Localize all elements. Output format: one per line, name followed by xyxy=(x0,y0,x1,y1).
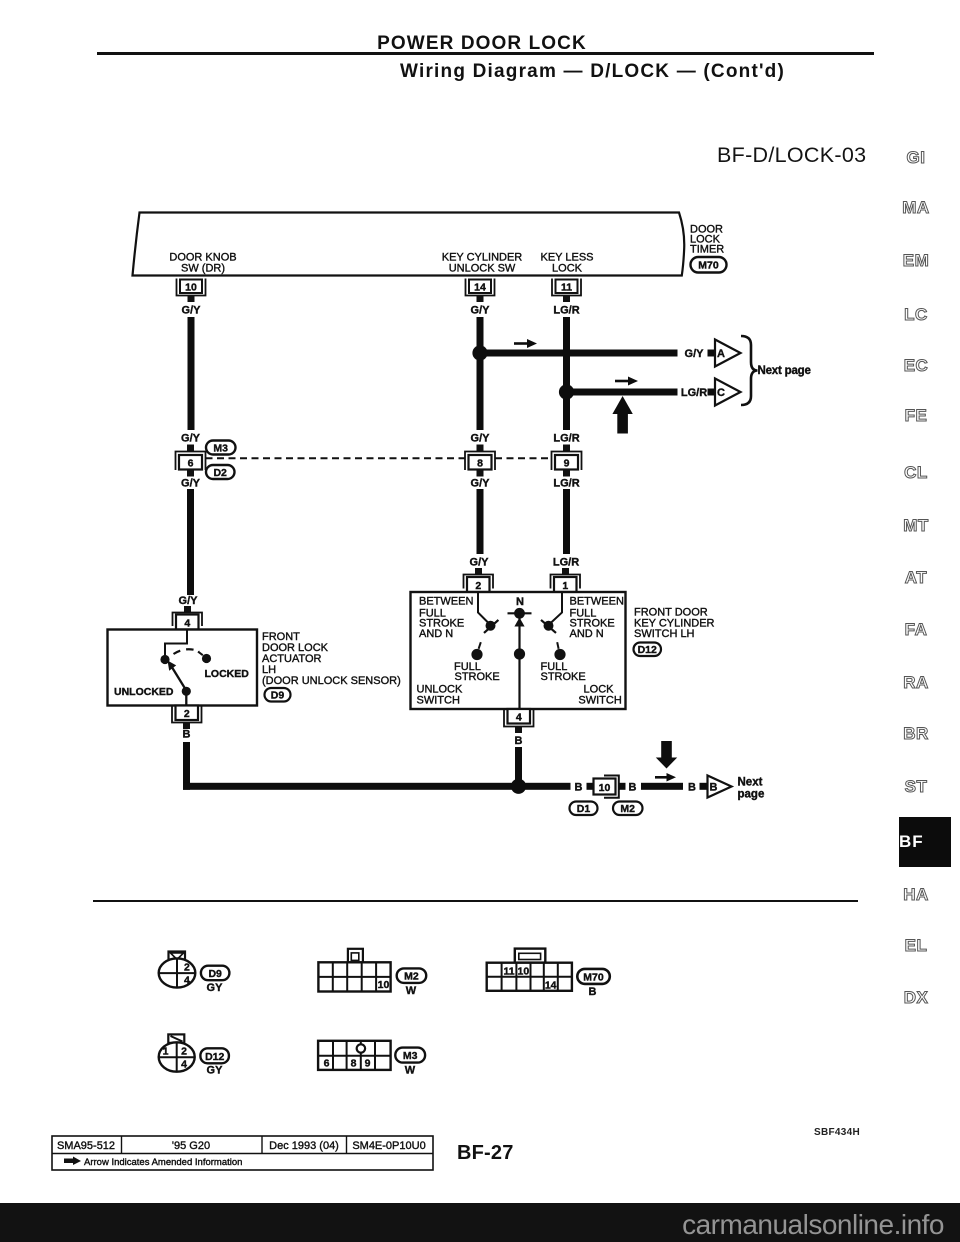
front door key cylinder switch box xyxy=(411,592,626,709)
svg-text:LG/R: LG/R xyxy=(553,478,579,490)
svg-text:G/Y: G/Y xyxy=(179,595,199,607)
svg-text:11: 11 xyxy=(503,965,514,977)
label UNLOCK SWITCH xyxy=(417,684,464,707)
svg-text:LOCK: LOCK xyxy=(552,263,583,275)
svg-text:G/Y: G/Y xyxy=(471,305,491,317)
wire right vertical upper xyxy=(563,317,570,430)
pinout M70 oval label xyxy=(577,969,610,984)
header rule xyxy=(97,52,874,55)
side tab MA xyxy=(896,198,936,218)
wire bottom horizontal B xyxy=(183,783,571,790)
svg-text:B: B xyxy=(629,782,637,794)
svg-text:STROKE: STROKE xyxy=(541,671,586,683)
svg-text:G/Y: G/Y xyxy=(181,478,201,490)
wire mid bottom vertical xyxy=(515,747,522,785)
svg-text:SM4E-0P10U0: SM4E-0P10U0 xyxy=(352,1140,425,1152)
side tab GI xyxy=(896,148,936,168)
side tab EM xyxy=(896,251,936,271)
svg-text:TIMER: TIMER xyxy=(690,244,724,256)
connector 9 xyxy=(552,445,582,477)
connector pin 11 (timer) xyxy=(552,279,581,303)
side tab DX xyxy=(896,988,936,1008)
stub before triangle B xyxy=(700,783,707,790)
connector pin 14 (timer) xyxy=(466,279,495,303)
side tab EC xyxy=(896,356,936,376)
key cyl right entry wire xyxy=(549,593,563,626)
key cyl left entry wire xyxy=(478,593,491,626)
header title xyxy=(0,33,960,55)
side tab BR xyxy=(896,724,936,744)
svg-text:G/Y: G/Y xyxy=(470,557,490,569)
svg-text:B: B xyxy=(710,782,718,794)
side tab AT xyxy=(896,568,936,588)
connector M70 oval xyxy=(691,257,727,273)
svg-text:M2: M2 xyxy=(404,971,419,983)
connector 4 (key cylinder bottom) xyxy=(504,709,534,733)
svg-text:M70: M70 xyxy=(583,971,604,983)
junction dot LG/R xyxy=(559,384,574,399)
svg-text:SMA95-512: SMA95-512 xyxy=(57,1140,115,1152)
svg-text:B: B xyxy=(183,729,191,741)
label FULL STROKE (right) xyxy=(541,661,586,683)
svg-text:8: 8 xyxy=(477,458,483,470)
actuator lever with arrow xyxy=(168,661,187,691)
junction dot B xyxy=(511,779,526,794)
svg-text:10: 10 xyxy=(185,282,197,294)
svg-text:10: 10 xyxy=(378,979,390,991)
connector 8 xyxy=(465,445,495,477)
footer page number xyxy=(457,1142,514,1165)
svg-text:(DOOR UNLOCK SENSOR): (DOOR UNLOCK SENSOR) xyxy=(262,675,401,687)
pinout D9 oval label xyxy=(201,966,230,981)
svg-text:M3: M3 xyxy=(403,1050,418,1062)
flow arrow on G/Y wire xyxy=(514,339,537,348)
svg-text:2: 2 xyxy=(181,1046,187,1058)
pinout connector M3 grid xyxy=(318,1041,391,1070)
wire LG/R horizontal to next page xyxy=(563,389,678,396)
svg-text:BETWEEN: BETWEEN xyxy=(570,596,624,608)
label KEY LESS LOCK xyxy=(541,252,594,275)
svg-text:LG/R: LG/R xyxy=(553,305,579,317)
actuator unlocked contact xyxy=(182,687,191,705)
actuator common contact xyxy=(160,655,169,664)
svg-text:Next: Next xyxy=(738,777,763,789)
svg-text:G/Y: G/Y xyxy=(685,348,705,360)
amended-info thick down arrow xyxy=(656,741,677,769)
svg-text:14: 14 xyxy=(474,282,486,294)
svg-text:11: 11 xyxy=(561,282,572,294)
brace next page xyxy=(741,336,758,405)
wire left vertical upper xyxy=(188,317,195,430)
svg-text:D12: D12 xyxy=(205,1051,224,1063)
svg-text:W: W xyxy=(405,1065,416,1077)
amended-info thick up arrow xyxy=(612,396,632,434)
svg-text:8: 8 xyxy=(351,1058,357,1070)
label DOOR KNOB SW (DR) xyxy=(169,252,236,275)
connector 2 (key cylinder) xyxy=(464,568,494,592)
up arrowhead on center wire xyxy=(514,618,524,627)
svg-text:B: B xyxy=(515,735,523,747)
side tab EL xyxy=(896,936,936,956)
svg-text:GY: GY xyxy=(207,982,224,994)
header subtitle xyxy=(400,61,820,83)
connector M3 oval xyxy=(206,441,236,455)
side tab HA xyxy=(896,885,936,905)
connector pin 10 (timer) xyxy=(177,279,206,303)
pinout connector M70 grid xyxy=(487,949,572,992)
node N xyxy=(508,608,532,619)
connector D2 oval xyxy=(206,465,235,479)
page connector triangle A xyxy=(715,340,741,367)
svg-text:10: 10 xyxy=(518,965,530,977)
side tab FE xyxy=(896,406,936,426)
svg-text:AND N: AND N xyxy=(570,628,604,640)
svg-text:4: 4 xyxy=(184,975,190,987)
side tab RA xyxy=(896,673,936,693)
label BETWEEN FULL STROKE AND N (left) xyxy=(419,596,473,640)
connector 10 (D1/M2 junction) xyxy=(594,776,619,798)
svg-text:LOCKED: LOCKED xyxy=(205,668,250,680)
harness dashed line left xyxy=(206,457,466,459)
label LOCK SWITCH xyxy=(578,684,621,707)
key cyl unlock contact xyxy=(484,620,498,633)
svg-text:14: 14 xyxy=(545,979,557,991)
door lock timer component box xyxy=(133,213,685,276)
label KEY CYLINDER UNLOCK SW xyxy=(442,252,523,275)
wire segment to page connector B xyxy=(641,783,683,790)
page connector triangle C xyxy=(715,379,741,406)
svg-text:W: W xyxy=(406,985,417,997)
svg-text:D2: D2 xyxy=(213,467,227,479)
connector D9 oval xyxy=(265,688,291,702)
pinout connector M2 grid xyxy=(318,949,390,992)
svg-text:'95 G20: '95 G20 xyxy=(172,1140,210,1152)
svg-text:1: 1 xyxy=(163,1046,169,1058)
wire G/Y horizontal to next page xyxy=(477,350,678,357)
full stroke contact left xyxy=(471,642,482,660)
svg-text:UNLOCKED: UNLOCKED xyxy=(114,686,174,698)
svg-text:G/Y: G/Y xyxy=(471,478,491,490)
bottom watermark bar xyxy=(0,1203,960,1242)
svg-text:4: 4 xyxy=(516,712,522,724)
page code BF-D/LOCK-03 xyxy=(717,143,866,168)
svg-text:D9: D9 xyxy=(208,968,222,980)
svg-text:6: 6 xyxy=(188,458,194,470)
svg-text:UNLOCK SW: UNLOCK SW xyxy=(449,263,516,275)
side tab BF black box xyxy=(899,817,951,867)
actuator throw dashed arc xyxy=(174,649,200,654)
actuator locked contact xyxy=(198,652,211,664)
stub square before C xyxy=(708,389,715,396)
stub before connector 10 xyxy=(587,783,594,790)
side tab MT xyxy=(896,516,936,536)
connector D12 oval xyxy=(634,643,662,657)
svg-text:STROKE: STROKE xyxy=(455,671,500,683)
small flow arrow (bottom) xyxy=(655,773,676,782)
label FULL STROKE (left) xyxy=(454,661,500,683)
svg-text:2: 2 xyxy=(184,708,190,720)
svg-text:2: 2 xyxy=(184,962,190,974)
svg-text:4: 4 xyxy=(184,618,190,630)
svg-text:page: page xyxy=(738,789,765,801)
svg-text:B: B xyxy=(589,986,597,998)
front door lock actuator box xyxy=(108,630,258,706)
svg-text:M3: M3 xyxy=(213,443,228,455)
pinout M3 oval label xyxy=(395,1048,425,1063)
svg-text:D9: D9 xyxy=(271,690,285,702)
actuator entry wire xyxy=(165,630,187,655)
svg-text:D1: D1 xyxy=(577,803,591,815)
svg-text:SW (DR): SW (DR) xyxy=(181,263,225,275)
label DOOR LOCK TIMER xyxy=(690,224,724,256)
footer figure code xyxy=(814,1127,860,1138)
svg-text:9: 9 xyxy=(365,1058,371,1070)
connector M2 oval (bottom wire) xyxy=(613,802,643,816)
pinout connector D12 circle xyxy=(159,1034,195,1071)
svg-text:G/Y: G/Y xyxy=(471,433,491,445)
svg-text:C: C xyxy=(717,387,725,399)
footer revision table xyxy=(51,1135,441,1180)
svg-text:B: B xyxy=(575,782,583,794)
wire left vertical lower xyxy=(187,489,194,595)
svg-text:M2: M2 xyxy=(620,803,635,815)
key cyl center wire xyxy=(518,613,520,708)
wire right vertical lower xyxy=(563,489,570,554)
pinout connector D9 circle xyxy=(159,952,196,988)
connector D1 oval xyxy=(570,802,598,816)
stub after connector 10 xyxy=(619,783,626,790)
connector 6 (M3/D2 junction) xyxy=(176,445,206,477)
label Next page (bottom) xyxy=(738,777,765,801)
wire mid vertical lower xyxy=(477,489,484,554)
key cyl lock contact xyxy=(541,620,556,633)
label FRONT DOOR KEY CYLINDER SWITCH LH xyxy=(634,607,715,641)
junction dot G/Y xyxy=(472,345,487,360)
svg-text:Arrow Indicates Amended Inform: Arrow Indicates Amended Information xyxy=(84,1157,242,1168)
pinout M2 oval label xyxy=(397,968,427,983)
pinout D12 oval label xyxy=(200,1048,229,1063)
svg-text:D12: D12 xyxy=(638,644,657,656)
connector 1 (key cylinder) xyxy=(551,568,581,592)
page connector triangle B xyxy=(708,776,732,798)
svg-text:BETWEEN: BETWEEN xyxy=(419,596,473,608)
svg-text:N: N xyxy=(516,596,524,608)
svg-text:2: 2 xyxy=(475,580,481,592)
svg-text:SWITCH: SWITCH xyxy=(417,695,460,707)
stub square before A xyxy=(708,350,715,357)
side tab CL xyxy=(896,463,936,483)
side tab FA xyxy=(896,620,936,640)
side tab ST xyxy=(896,777,936,797)
svg-text:G/Y: G/Y xyxy=(181,433,201,445)
flow arrow on LG/R wire xyxy=(615,377,638,386)
label BETWEEN FULL STROKE AND N (right) xyxy=(570,596,624,640)
svg-text:10: 10 xyxy=(599,782,611,794)
section divider line xyxy=(93,900,858,902)
svg-text:1: 1 xyxy=(562,580,568,592)
svg-text:G/Y: G/Y xyxy=(182,305,202,317)
wire mid vertical upper xyxy=(477,317,484,430)
harness dashed line right xyxy=(495,457,552,459)
svg-text:LG/R: LG/R xyxy=(553,433,579,445)
svg-text:9: 9 xyxy=(564,458,570,470)
svg-text:6: 6 xyxy=(324,1058,330,1070)
connector 2 (actuator bottom) xyxy=(172,706,202,730)
svg-text:SWITCH: SWITCH xyxy=(578,695,621,707)
svg-text:Next page: Next page xyxy=(758,365,811,377)
svg-text:GY: GY xyxy=(207,1065,224,1077)
label FRONT DOOR LOCK ACTUATOR LH xyxy=(262,631,401,687)
svg-text:Dec 1993 (04): Dec 1993 (04) xyxy=(269,1140,339,1152)
svg-text:SWITCH LH: SWITCH LH xyxy=(634,628,695,640)
svg-text:M70: M70 xyxy=(698,260,719,272)
svg-text:B: B xyxy=(688,782,696,794)
svg-text:LG/R: LG/R xyxy=(553,557,579,569)
svg-text:A: A xyxy=(717,348,725,360)
svg-text:LG/R: LG/R xyxy=(681,387,707,399)
side tab LC xyxy=(896,305,936,325)
svg-text:AND N: AND N xyxy=(419,628,453,640)
svg-text:4: 4 xyxy=(181,1059,187,1071)
full stroke contact right xyxy=(554,642,565,660)
wire left bottom vertical xyxy=(183,742,190,790)
connector 4 (actuator) xyxy=(173,606,203,630)
center wire node xyxy=(514,648,525,659)
